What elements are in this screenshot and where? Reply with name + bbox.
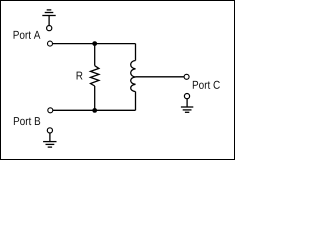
node junction (top): [92, 41, 97, 46]
wire: center tap to Port C: [136, 76, 185, 78]
label Port A: [14, 31, 41, 39]
ground (top, above Port A): [42, 10, 55, 31]
port terminal Port A: [48, 41, 53, 46]
inductor L: [131, 61, 136, 92]
wire: Port B to bottom-right corner: [53, 109, 136, 111]
port terminal Port C: [184, 74, 189, 79]
label Port B: [14, 117, 40, 125]
node junction (bottom): [92, 108, 97, 113]
wire: Port A to top-right corner: [53, 43, 136, 45]
label R: [77, 72, 83, 80]
wire: right vertical (top segment): [135, 44, 137, 61]
wire: resistor top lead: [94, 44, 96, 66]
wire: resistor bottom lead: [94, 86, 96, 110]
resistor R: [91, 66, 99, 86]
port terminal Port B: [48, 108, 53, 113]
ground (below Port C): [181, 94, 193, 113]
label Port C: [193, 81, 220, 89]
ground (below Port B): [43, 128, 56, 147]
wire: right vertical (bottom segment): [135, 92, 137, 111]
